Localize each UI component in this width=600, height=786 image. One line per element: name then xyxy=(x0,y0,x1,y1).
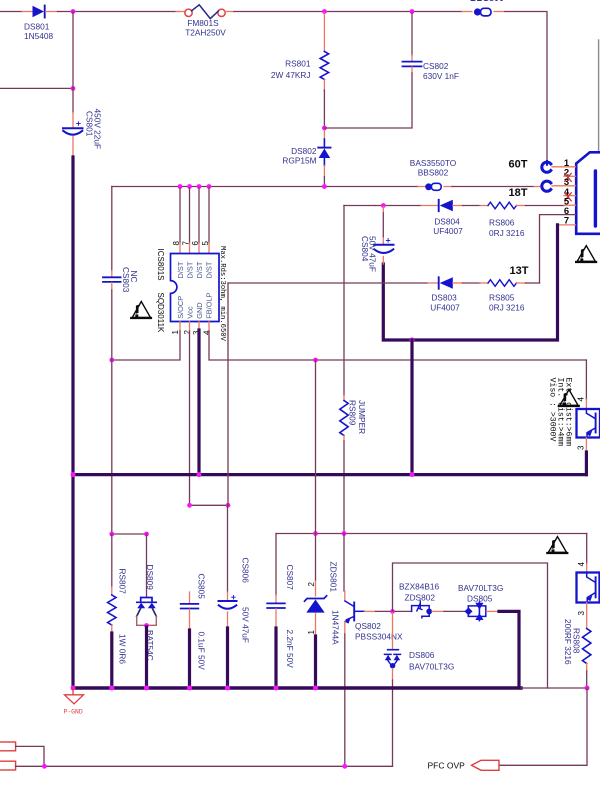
junction bus at RS807 xyxy=(109,686,114,691)
svg-text:D/ST: D/ST xyxy=(186,261,195,278)
capacitor CS807 upper stub xyxy=(275,595,277,603)
junction sense net at RS807 xyxy=(109,532,114,537)
junction bus at CS807 xyxy=(274,686,279,691)
capacitor CS801 xyxy=(63,122,83,135)
wire DS805 right stub xyxy=(487,610,500,612)
resistor RS807 zigzag xyxy=(108,595,116,625)
wire pin7 stub xyxy=(559,224,576,226)
wire J1a to PFC rail xyxy=(16,746,44,766)
svg-text:50V 47uF: 50V 47uF xyxy=(368,236,378,272)
wire bead right stub xyxy=(494,11,505,13)
wire DS809 upper lead xyxy=(146,534,148,597)
ferrite bead BBS802 xyxy=(425,183,441,190)
wire DS804 right stub xyxy=(453,205,463,207)
wire pin3 stub xyxy=(198,322,200,331)
wire bead BBS802 right stub xyxy=(444,186,452,188)
wire CS801 stub xyxy=(72,113,74,127)
warning triangle near opto1 xyxy=(559,390,579,406)
wire thick base net to bus xyxy=(499,611,519,688)
wire CS803 upper lead xyxy=(111,187,113,271)
svg-text:GND: GND xyxy=(195,302,204,318)
svg-text:BZX84B16: BZX84B16 xyxy=(399,582,440,592)
wire RS801 to node128 xyxy=(323,90,325,128)
capacitor CS807 lower stub xyxy=(275,609,277,628)
wire IC pin6 drop xyxy=(198,188,200,243)
svg-text:1N5408: 1N5408 xyxy=(24,31,53,41)
wire pin3 GND thick xyxy=(197,330,200,475)
resistor RS801 upper stub xyxy=(323,13,325,52)
ferrite bead BBS800 xyxy=(474,8,491,16)
junction bus474 at riser xyxy=(410,472,415,477)
capacitor CS806 upper stub xyxy=(227,592,229,601)
wire CS803 to SOCP net xyxy=(111,290,113,360)
wire thick DS809 to bus xyxy=(145,627,148,688)
wire DS802 lower stub xyxy=(323,166,325,177)
junction at CS802 top xyxy=(410,9,415,14)
svg-text:DS804: DS804 xyxy=(434,217,460,227)
wire PFC rail y766 xyxy=(16,765,393,767)
svg-text:4: 4 xyxy=(203,330,212,335)
wire thick ground bus y474 xyxy=(73,473,586,476)
wire CS801 upper lead xyxy=(72,12,74,113)
wire pin5 stub xyxy=(564,204,576,206)
pin stub 4 xyxy=(564,195,576,197)
resistor RS807 lower stub xyxy=(111,625,113,633)
wire PFC OVP drop xyxy=(499,688,587,765)
svg-text:50V 47uF: 50V 47uF xyxy=(241,607,251,643)
junction CS803 at SOCP net xyxy=(109,358,114,363)
svg-text:3: 3 xyxy=(577,445,586,450)
wire DS806 lower stub xyxy=(392,668,394,680)
svg-text:DS809: DS809 xyxy=(145,565,155,591)
optocoupler U2 box xyxy=(577,409,600,438)
svg-text:0RJ 3216: 0RJ 3216 xyxy=(489,228,525,238)
diode DS802 xyxy=(318,139,330,166)
wire DS806 down to PFC rail xyxy=(392,680,394,766)
wire CS802 stub xyxy=(411,55,413,61)
opto2 pin4 stub xyxy=(586,564,588,573)
wire pin6 to 13T riser xyxy=(540,215,576,283)
svg-text:DS805: DS805 xyxy=(467,594,493,604)
warning triangle near IC xyxy=(131,302,151,319)
svg-text:D/ST: D/ST xyxy=(195,261,204,278)
wire thick main ground bus y688 xyxy=(73,686,521,689)
wire DS801 anode stub xyxy=(22,11,33,13)
svg-text:4: 4 xyxy=(577,562,586,567)
capacitor CS806 electrolytic xyxy=(219,595,237,608)
SECTION-TOP xyxy=(0,0,547,688)
junction bus at CS801 xyxy=(71,686,76,691)
svg-text:DS801: DS801 xyxy=(24,22,50,32)
svg-text:RGP15M: RGP15M xyxy=(282,156,316,166)
svg-text:SQD3011K: SQD3011K xyxy=(156,293,165,334)
wire top rail fuse to corner xyxy=(225,11,234,13)
optocoupler U2 phototransistor xyxy=(586,409,595,438)
junction bus at CS805 xyxy=(187,686,192,691)
wire RS805 to riser xyxy=(526,282,540,284)
wire thick riser x412 xyxy=(410,340,413,475)
transistor QS802 xyxy=(344,601,365,624)
warning triangle near opto2 xyxy=(547,537,567,553)
junction bus at RS808 xyxy=(585,686,590,691)
wire IC pin8 drop xyxy=(179,188,181,243)
capacitor CS805 lower stub xyxy=(189,609,191,630)
junction bus at ZDS801 xyxy=(313,686,318,691)
svg-text:ZDS801: ZDS801 xyxy=(329,562,339,593)
capacitor CS804 xyxy=(374,239,394,253)
capacitor CS805 upper stub xyxy=(189,592,191,603)
svg-text:P-GND: P-GND xyxy=(64,709,83,716)
connector stub J1 pin a xyxy=(0,742,16,751)
wire DS806 upper stub xyxy=(392,613,394,649)
svg-text:1N4744A: 1N4744A xyxy=(331,610,341,645)
transistor QS802 collector stub xyxy=(344,591,346,601)
wire RS807 upper lead xyxy=(111,534,113,587)
junction bus at DS809 xyxy=(144,686,149,691)
junction bus474 at CS801 line xyxy=(71,472,76,477)
wire ZDS801 riser xyxy=(315,360,317,534)
svg-text:RS801: RS801 xyxy=(285,59,311,69)
wire CS806 upper lead xyxy=(227,505,229,592)
svg-text:ZDS802: ZDS802 xyxy=(405,593,436,603)
svg-text:Vcc: Vcc xyxy=(186,306,195,319)
resistor RS801 zigzag xyxy=(320,52,328,80)
wire 13T row xyxy=(228,282,428,284)
junction PFC rail at QS802 emitter xyxy=(342,764,347,769)
zener diode ZDS801 xyxy=(305,596,327,613)
junction IC pin7 wire xyxy=(187,184,192,189)
op-amp U1 IC ICS801S box xyxy=(171,254,220,322)
optocoupler U3 box xyxy=(577,573,600,603)
transistor QS802 emitter stub xyxy=(344,621,346,634)
svg-text:0.1uF 50V: 0.1uF 50V xyxy=(196,632,206,671)
wire ZDS802 right stub xyxy=(432,610,444,612)
wire bus thin segment xyxy=(521,687,548,689)
resistor RS808 zigzag xyxy=(583,629,591,664)
svg-text:BAV70LT3G: BAV70LT3G xyxy=(409,662,454,672)
wire pin4 FBOLP to net A xyxy=(209,331,586,360)
junction node128 xyxy=(322,126,327,131)
wire RS809 to collector node xyxy=(343,441,345,534)
transformer connector outline xyxy=(576,152,600,234)
wire thick CS801 to ground bus xyxy=(71,157,74,688)
wire CS803 upper stub xyxy=(111,271,113,277)
wire y533 corner down to opto2 xyxy=(586,534,588,564)
svg-text:PFC OVP: PFC OVP xyxy=(428,760,466,770)
wire SOCP sense net y534 xyxy=(112,533,147,535)
wire CS807 upper lead xyxy=(275,534,277,596)
wire FB divider net y533 xyxy=(276,533,587,535)
wire Vcc node to 13T riser xyxy=(190,504,229,506)
warning triangle below connector xyxy=(576,246,596,262)
capacitor CS805 xyxy=(181,604,199,609)
wire IC pin6 stub xyxy=(198,243,200,254)
resistor RS806 right stub xyxy=(517,205,526,207)
junction Vcc node left xyxy=(187,503,192,508)
svg-text:BAV70LT3G: BAV70LT3G xyxy=(458,583,503,593)
svg-text:D/ST: D/ST xyxy=(205,261,214,278)
capacitor CS806 lower stub xyxy=(227,612,229,628)
svg-text:FB/OLP: FB/OLP xyxy=(205,292,214,318)
wire 18T line to coil xyxy=(452,186,534,188)
coil 18T winding xyxy=(542,181,551,191)
transformer inner bar xyxy=(594,171,597,226)
opto2 pin3 stub xyxy=(586,603,588,629)
junction CS804 tap xyxy=(381,203,386,208)
wire bead BBS800 left stub xyxy=(462,11,472,13)
diode DS803 xyxy=(439,277,453,288)
junction at CS801 top xyxy=(71,9,76,14)
svg-text:200RF 3216: 200RF 3216 xyxy=(563,619,573,665)
wire CS801 lower stub xyxy=(72,137,74,158)
svg-text:DS802: DS802 xyxy=(291,146,317,156)
svg-text:DS806: DS806 xyxy=(409,650,435,660)
wire IC pin8 stub xyxy=(179,243,181,254)
wire top AC rail left xyxy=(0,11,22,13)
wire CS802 upper lead xyxy=(411,13,413,55)
svg-text:RS806: RS806 xyxy=(489,218,515,228)
wire pin1 stub xyxy=(179,322,181,332)
net label PFC OVP marker xyxy=(472,760,500,770)
junction at CS801 branch xyxy=(71,86,76,91)
wire IC pin5 stub xyxy=(208,243,210,254)
wire SOCP net down to current sense xyxy=(111,360,113,534)
resistor RS805 right stub xyxy=(517,282,526,284)
svg-text:T2AH250V: T2AH250V xyxy=(185,28,226,38)
svg-text:RS807: RS807 xyxy=(118,569,128,595)
junction thick riser at y340 xyxy=(410,338,415,343)
SECTION-MID xyxy=(71,206,600,689)
wire CS802 lower stub xyxy=(411,67,413,73)
svg-text:5: 5 xyxy=(201,241,210,246)
svg-text:Ext. dist:>6mm: Ext. dist:>6mm xyxy=(563,378,573,447)
wire base to ZDS802 xyxy=(376,610,412,612)
ground symbol P-GND xyxy=(65,688,84,704)
svg-text:CS805: CS805 xyxy=(196,574,206,600)
wire pin1 to SOCP net xyxy=(112,331,180,360)
SECTION-BOTTOM xyxy=(0,534,590,771)
svg-text:BBS800: BBS800 xyxy=(470,0,504,3)
svg-text:450V 22uF: 450V 22uF xyxy=(93,109,103,150)
diode DS806 BAV70 xyxy=(385,650,401,669)
resistor RS809 upper stub xyxy=(343,396,345,401)
zener ZDS801 upper stub xyxy=(315,581,317,596)
junction Vcc node right xyxy=(226,503,231,508)
capacitor CS807 xyxy=(267,603,285,608)
wire CS802 down to node128 rail xyxy=(324,73,412,128)
opto1 pin4 stub xyxy=(585,400,587,410)
coil 60T winding xyxy=(542,161,551,172)
svg-text:CS807: CS807 xyxy=(285,565,295,591)
svg-text:8: 8 xyxy=(172,241,181,246)
wire thick pin7 drop xyxy=(383,225,557,340)
capacitor CS803 xyxy=(103,277,121,282)
wire RS801 lower stub xyxy=(323,80,325,91)
wire DS803 right stub xyxy=(453,282,463,284)
diode DS804 left stub xyxy=(421,205,438,207)
wire ZDS801 upper lead xyxy=(315,534,317,582)
junction sense net at DS809 xyxy=(144,532,149,537)
svg-text:60T: 60T xyxy=(509,159,528,171)
wire ZDS802 to DS805 xyxy=(444,610,466,612)
resistor RS805 zigzag xyxy=(488,280,517,287)
diode DS802 upper stub xyxy=(323,131,325,140)
svg-text:DS803: DS803 xyxy=(431,293,457,303)
wire thick CS805 to bus xyxy=(188,630,191,688)
connector stub J1 pin b xyxy=(0,761,16,770)
wire left rail y88 xyxy=(0,87,73,89)
svg-text:3: 3 xyxy=(577,611,586,616)
svg-text:ICS801S: ICS801S xyxy=(156,249,165,281)
wire IC top bus y186 xyxy=(112,186,418,188)
svg-text:NC: NC xyxy=(129,271,139,283)
wire thick ZDS801 to bus xyxy=(314,636,317,688)
wire IC pin5 drop xyxy=(208,188,210,243)
svg-text:18T: 18T xyxy=(509,187,528,199)
junction DS806 tap xyxy=(390,609,395,614)
wire 13T riser x228 xyxy=(227,283,229,505)
svg-text:2W 47KRJ: 2W 47KRJ xyxy=(271,70,311,80)
no-connect X pin4 xyxy=(565,193,571,201)
svg-text:PBSS304NX: PBSS304NX xyxy=(355,632,403,642)
zener ZDS802 BZX84B16 xyxy=(412,601,433,618)
wire QS802 collector lead xyxy=(343,534,345,592)
svg-text:BBS802: BBS802 xyxy=(418,168,449,178)
no-connect X pin2 xyxy=(565,173,571,181)
svg-text:2: 2 xyxy=(183,330,192,335)
zener ZDS801 lower stub xyxy=(315,613,317,636)
svg-text:Max.Rds:3ohm, min.650V: Max.Rds:3ohm, min.650V xyxy=(218,246,226,342)
junction PFC rail at J1a xyxy=(42,764,47,769)
resistor RS805 left stub xyxy=(480,282,488,284)
junction DS802 at bus xyxy=(322,184,327,189)
svg-text:0RJ 3216: 0RJ 3216 xyxy=(489,303,525,313)
svg-text:UF4007: UF4007 xyxy=(433,226,463,236)
wire DS803 to RS805 xyxy=(463,282,481,284)
wire RS808 to bus xyxy=(586,671,588,688)
wire QS802 base stub xyxy=(364,610,375,612)
wire DS801 cathode stub xyxy=(46,11,58,13)
wire CS804 lower stub xyxy=(382,257,384,265)
junction RS809 at y533 xyxy=(342,531,347,536)
resistor RS806 zigzag xyxy=(488,202,517,209)
wire CS803 lower stub xyxy=(111,283,113,290)
junction bus474 at IC GND xyxy=(197,472,202,477)
SECTION-IC xyxy=(103,158,586,534)
wire top rail to 60T drop xyxy=(505,12,547,162)
svg-text:CS802: CS802 xyxy=(423,61,449,71)
wire IC pin7 stub xyxy=(189,243,191,254)
capacitor CS804 stub top xyxy=(382,207,384,244)
wire pin4 stub xyxy=(208,322,210,332)
resistor RS806 left stub xyxy=(480,205,488,207)
wire 18T rail corner xyxy=(344,205,375,207)
diode DS801 xyxy=(33,6,45,18)
capacitor CS802 xyxy=(403,62,422,67)
svg-text:630V 1nF: 630V 1nF xyxy=(423,71,459,81)
wire bead BBS802 left stub xyxy=(418,186,425,188)
svg-text:D/ST: D/ST xyxy=(176,261,185,278)
fuse FM801S xyxy=(185,5,225,19)
pin stub 3 xyxy=(552,185,576,187)
resistor RS808 lower stub xyxy=(586,664,588,672)
pin stub 2 xyxy=(564,175,576,177)
pin stub 1 xyxy=(552,166,576,168)
diode DS803 left stub xyxy=(428,282,438,284)
resistor RS809 lower stub xyxy=(343,436,345,442)
junction ZDS801 riser at y533 xyxy=(313,531,318,536)
wire top rail to fuse xyxy=(58,11,177,13)
svg-text:2: 2 xyxy=(307,582,316,587)
svg-text:13T: 13T xyxy=(510,265,529,277)
svg-text:RS809: RS809 xyxy=(348,400,358,426)
wire RS806 to pin5 xyxy=(526,205,565,207)
SECTION-RIGHT xyxy=(228,40,600,475)
junction IC pin8 wire xyxy=(178,184,183,189)
svg-text:4: 4 xyxy=(577,397,586,402)
wire net A drop to opto1 xyxy=(585,360,587,400)
wire 18T coil stub xyxy=(534,186,542,188)
wire pin2 Vcc drop xyxy=(189,331,191,505)
wire QS802 emitter down xyxy=(344,634,346,766)
resistor RS809 jumper zigzag xyxy=(340,401,348,436)
junction IC pin6 wire xyxy=(197,184,202,189)
svg-text:2.2nF 50V: 2.2nF 50V xyxy=(285,630,295,669)
gray core line right edge xyxy=(598,40,600,152)
svg-text:1W 0R6: 1W 0R6 xyxy=(118,634,128,664)
diode DS805 BAV70 xyxy=(465,602,486,621)
junction at RS801 top xyxy=(322,9,327,14)
wire IC pin7 drop xyxy=(189,188,191,243)
svg-text:1: 1 xyxy=(171,330,180,335)
junction bus at CS806 xyxy=(225,686,230,691)
opto1 pin3 stub xyxy=(585,438,587,453)
resistor RS807 upper stub xyxy=(111,587,113,595)
wire thick CS806 to bus xyxy=(226,628,229,688)
svg-text:FM801S: FM801S xyxy=(187,18,219,28)
optocoupler U3 phototransistor xyxy=(586,573,595,603)
wire pin2 stub xyxy=(189,322,191,332)
svg-text:JUMPER: JUMPER xyxy=(357,400,367,434)
junction DS809 bottom xyxy=(144,623,149,628)
svg-text:7: 7 xyxy=(182,241,191,246)
svg-text:S/OCP: S/OCP xyxy=(176,296,185,319)
diode DS809 BAT54C xyxy=(137,598,157,626)
svg-text:QS802: QS802 xyxy=(355,621,381,631)
wire 18T rail to CS804 xyxy=(375,205,421,207)
wire RS809 upper lead xyxy=(343,206,345,396)
wire thick opto1 to bus xyxy=(585,452,588,475)
svg-text:CS806: CS806 xyxy=(241,558,251,584)
svg-text:UF4007: UF4007 xyxy=(430,303,460,313)
wire thick CS807 to bus xyxy=(274,628,277,688)
svg-text:6: 6 xyxy=(191,241,200,246)
wire DS802 to IC bus xyxy=(323,177,325,187)
wire thick RS807 to bus xyxy=(110,633,113,688)
wire CS804 upper lead xyxy=(382,213,384,237)
junction ZDS801 riser at net A xyxy=(313,358,318,363)
wire DS804 to RS806 xyxy=(463,205,481,207)
svg-text:RS805: RS805 xyxy=(489,293,515,303)
diode DS804 xyxy=(439,200,453,211)
junction IC pin5 wire xyxy=(207,184,212,189)
svg-text:BAS3550TO: BAS3550TO xyxy=(410,158,457,168)
wire OVP net y563 xyxy=(393,563,588,688)
